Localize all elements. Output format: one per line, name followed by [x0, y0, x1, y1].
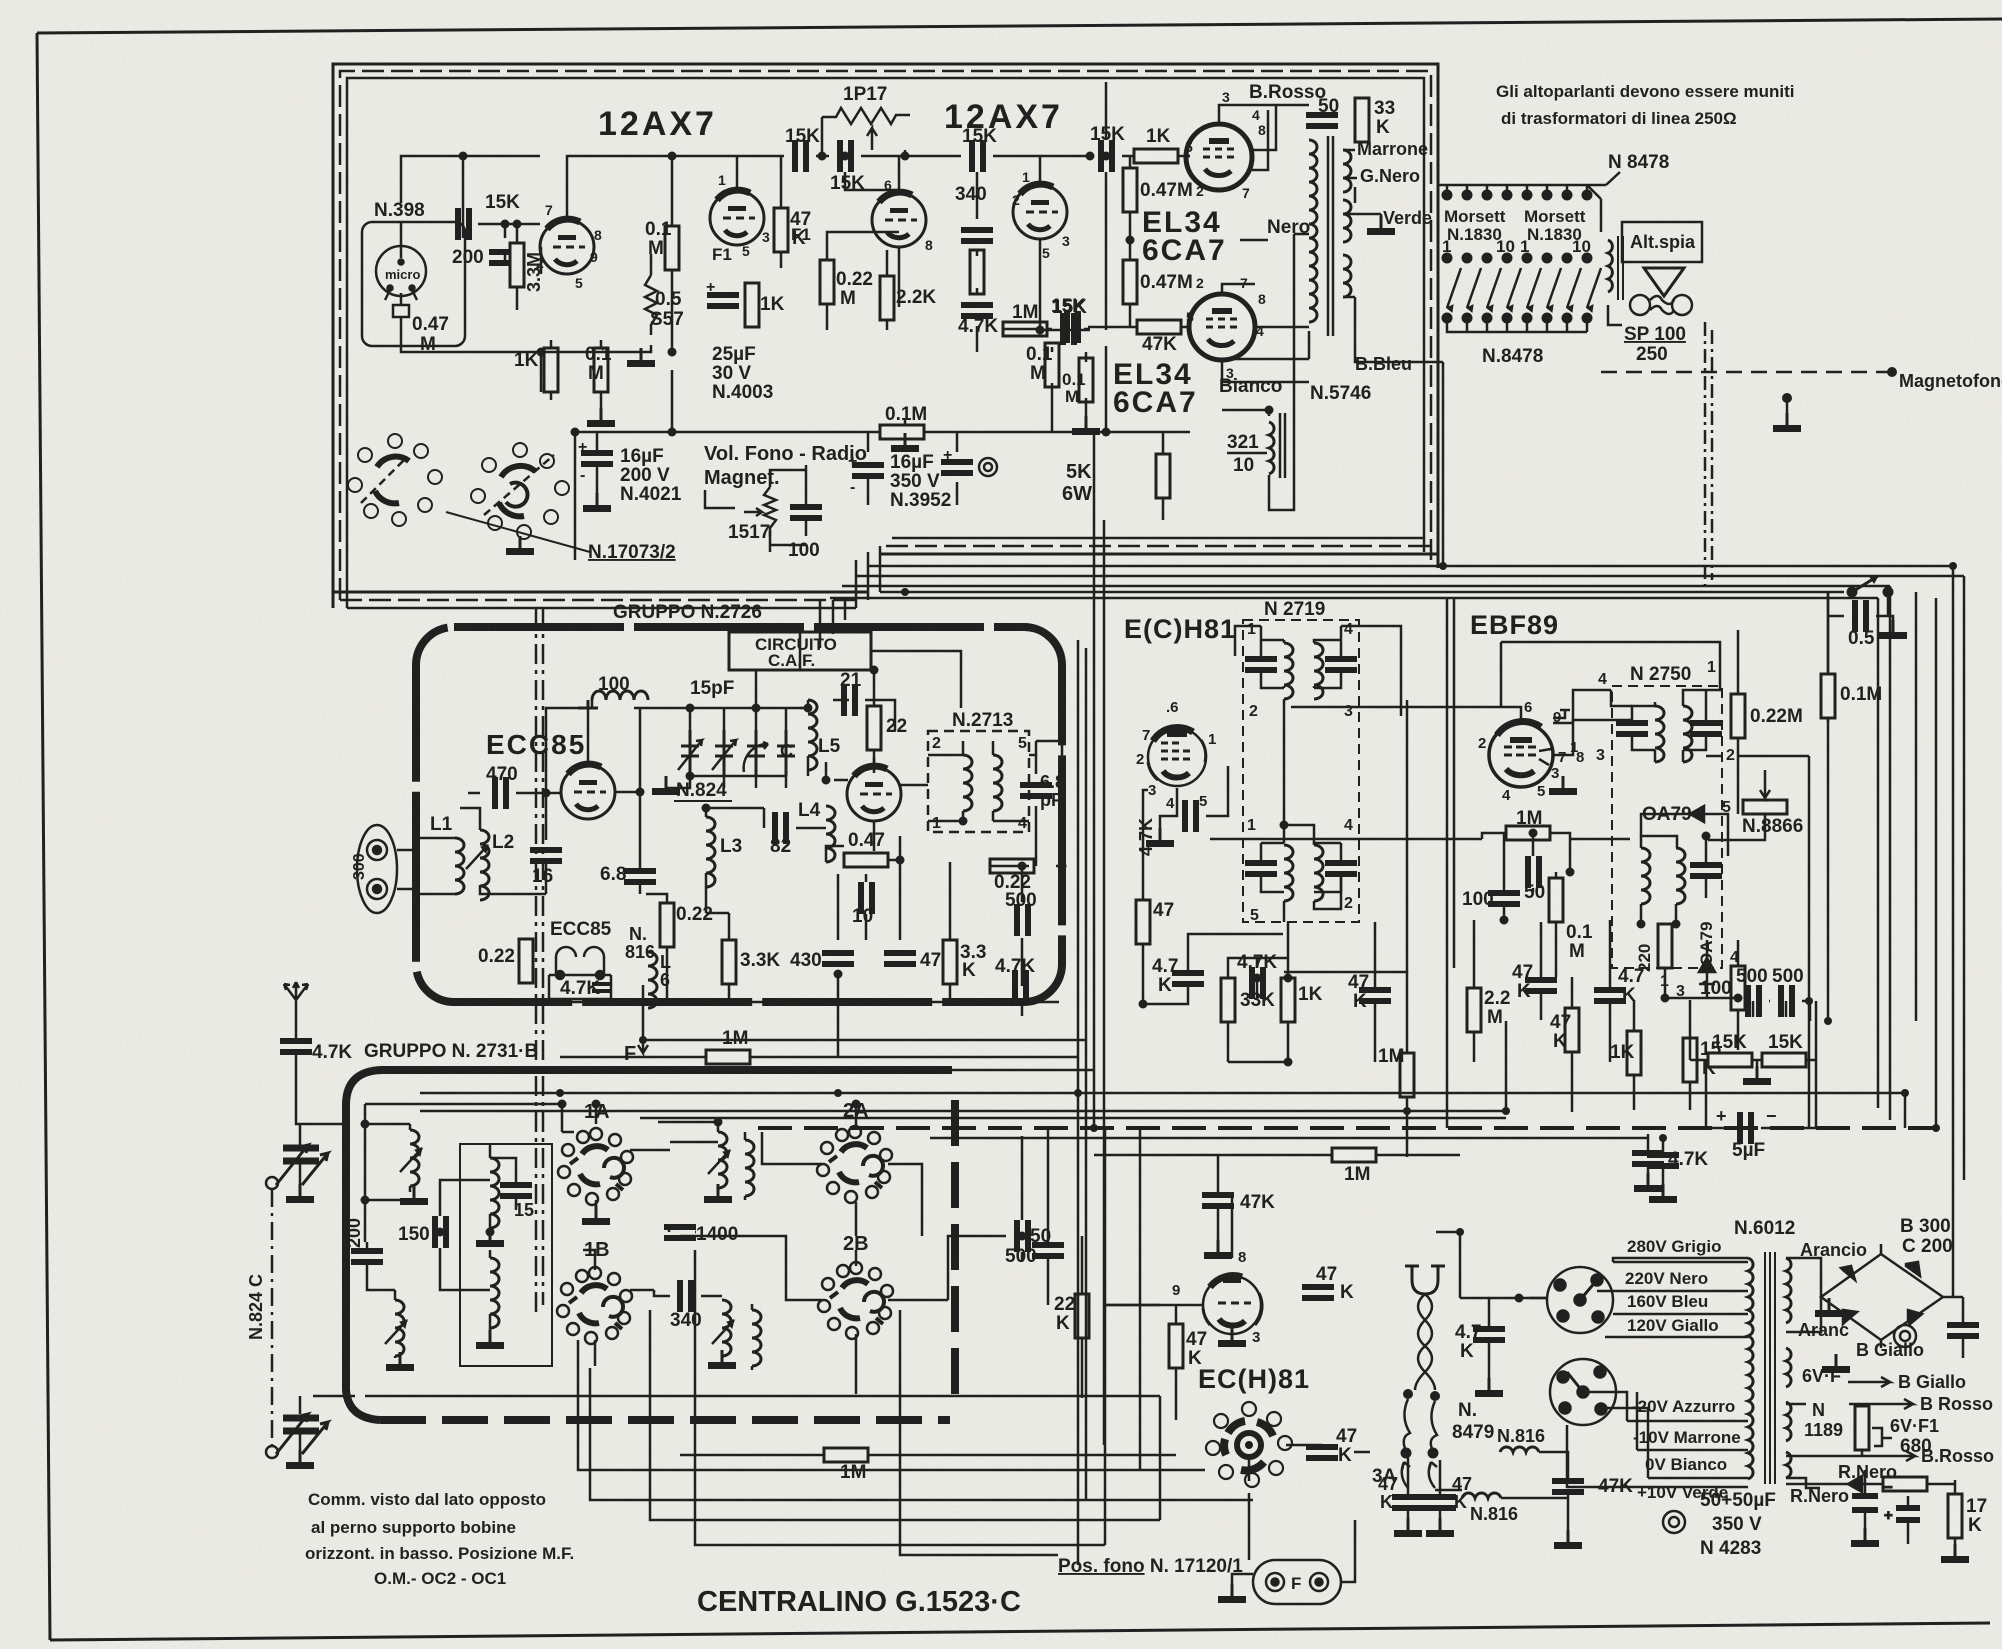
resistor 0.1M vertical: [1045, 343, 1059, 387]
pin digits EL34 upper: [1185, 89, 1266, 201]
ground gang 1: [286, 1184, 314, 1203]
bridge wires: [1786, 1244, 1963, 1348]
bottom rail: [1447, 318, 1587, 332]
tuning gang 1 wires: [300, 1124, 343, 1194]
triode V2b 12AX7: [1013, 184, 1067, 239]
resistor 47K horizontal: [1137, 320, 1181, 334]
CAF box: [729, 632, 871, 670]
cap 10: [858, 882, 875, 914]
junction dots on buses: [556, 562, 1957, 1236]
cap 4.7K mid: [1249, 967, 1266, 999]
vertical riser 1M: [1406, 700, 1409, 972]
ground gang 2: [286, 1450, 314, 1469]
cap 6.8pF: [1020, 782, 1052, 799]
grid coupling cap 15K #2: [837, 140, 854, 172]
resistor 0.47M vertical lower: [1123, 260, 1137, 304]
terminal circle: [979, 458, 997, 476]
coil mid 1 with arrow: [708, 1132, 730, 1188]
switch rosette 1B: [557, 1267, 632, 1344]
switch rosette 2A: [817, 1126, 892, 1203]
resistor 0.22 vertical mid: [660, 903, 674, 947]
plate resistor 47K vertical: [774, 208, 788, 252]
fuse holder oval: [1253, 1560, 1341, 1604]
cap 500: [1014, 904, 1031, 936]
cap 47K near chokes: [1552, 1478, 1584, 1495]
wire screen tap: [1252, 110, 1268, 170]
cap 470: [492, 777, 509, 809]
cap 100 at pot: [790, 504, 822, 521]
magnetofono terminal: [1773, 367, 1897, 432]
resistor 5K 6W vertical: [1156, 454, 1170, 498]
switch top right: [1847, 576, 1893, 597]
coil L6: [648, 952, 657, 1008]
wire antenna down: [296, 1022, 313, 1124]
arrowheads: [1447, 305, 1593, 312]
ground 17K: [1941, 1544, 1969, 1563]
triode V1b 12AX7: [710, 190, 764, 245]
pin digits EL34 lower: [1186, 275, 1266, 381]
wire plate V1 to cap: [541, 156, 784, 352]
wires pot: [770, 465, 806, 552]
wire 100 coil: [546, 700, 690, 793]
tuning gang 1 cap: [276, 1145, 328, 1185]
bottom long wire 6: [900, 1310, 1058, 1555]
ground coil mid2: [708, 1350, 736, 1369]
cap 47K mid left: [1202, 1192, 1234, 1209]
dash-dot pair right of matrix: [1705, 322, 1712, 588]
resistor 47K below 340: [970, 250, 984, 294]
lamp holder circles: [1630, 295, 1692, 315]
ground coil osc1: [476, 1228, 504, 1247]
bottom long wire 1: [365, 1396, 1160, 1520]
wire to mains 4.7K: [1436, 1232, 1489, 1298]
ground second: [1426, 1518, 1454, 1537]
bridge rectifier diamond: [1821, 1254, 1943, 1340]
wire 4.7K bus: [1662, 1138, 1665, 1196]
ECH81 tube: [1148, 728, 1206, 786]
resistor 3.3M vertical: [510, 243, 524, 287]
phono switch wafer A: [348, 434, 442, 526]
ground coil 2: [386, 1352, 414, 1371]
heater symbol 6VF1: [1872, 1428, 1892, 1446]
pins EC(H)81: [1172, 1249, 1260, 1346]
coil L2: [480, 830, 489, 900]
resistor 1M horizontal bottom: [680, 1454, 1176, 1457]
pin digits 12AX7 V2: [718, 172, 770, 259]
ground coil osc2: [476, 1330, 504, 1349]
phono switch wafer B: [471, 443, 569, 539]
underline N.824: [674, 800, 732, 802]
resistor 2.2M vertical: [1467, 988, 1481, 1032]
bottom long wire 4: [650, 1310, 1160, 1520]
wire cathode: [1160, 766, 1228, 828]
EBF89 tube: [1489, 722, 1553, 787]
cap 50: [1032, 1242, 1064, 1259]
terminal matrix: [1442, 185, 1601, 332]
ground verde: [1367, 216, 1395, 235]
tuning gang 1 circle: [266, 1177, 278, 1189]
wire fuse: [1232, 1493, 1355, 1584]
cap 150: [432, 1216, 449, 1248]
resistor 1M below box: [706, 1050, 750, 1064]
dashed box N.2750: [1612, 686, 1722, 968]
bus below amp block 4: [868, 566, 1953, 1296]
ratio detector coil b: [1676, 848, 1685, 904]
dashed box N.2719: [1243, 620, 1359, 922]
ground 47K mid: [1204, 1240, 1232, 1259]
IF2 coil secondary: [1314, 845, 1323, 901]
junction dots N2750: [1637, 832, 1743, 1003]
bottom long wire 3: [590, 1368, 1253, 1500]
pilot lamp triangle: [1644, 268, 1684, 296]
junction dots EBF: [1500, 829, 1575, 925]
resistors 15K 15K horizontal: [1708, 1053, 1752, 1067]
ground coil mid1: [704, 1184, 732, 1203]
diode OA79: [1690, 806, 1714, 822]
resistor 47 K vertical: [1169, 1324, 1183, 1368]
resistor 0.47 horizontal: [844, 853, 888, 867]
bus mid 4: [930, 1137, 1648, 1140]
page frame bottom border: [50, 1623, 1990, 1640]
amplifier shield enclosure middle border: [340, 71, 1431, 600]
resistor 22 boxed: [867, 706, 881, 750]
tuning gang 2 wires: [300, 1396, 355, 1462]
junction dots top block: [459, 152, 1111, 437]
wire plate lower: [1222, 284, 1309, 382]
resistor 47 K vertical: [1565, 1008, 1579, 1052]
coil L3: [706, 817, 715, 887]
wire EBF89 top: [1291, 642, 1633, 788]
wire matrix to pilot: [1587, 185, 1622, 325]
secondary 6V winding: [1786, 1348, 1791, 1387]
wire 1M to EC(H)81: [1104, 1304, 1160, 1307]
ground triode a top: [578, 700, 598, 708]
secondary rect winding: [1786, 1452, 1791, 1478]
resistor 15 K vertical: [1683, 1038, 1697, 1082]
resistor 0.1M vertical second: [1079, 358, 1093, 402]
bottom long wire 5: [695, 1250, 1105, 1545]
pin digits 12AX7 V1: [536, 202, 602, 291]
ground fuse: [1218, 1584, 1246, 1603]
arrow L2: [466, 845, 488, 869]
arrow into pot: [1760, 770, 1770, 798]
wire 5K: [868, 432, 1163, 520]
fraction bar: [1227, 452, 1267, 455]
cap 47K right: [1424, 1494, 1456, 1511]
cap 100: [1488, 890, 1520, 907]
input cap 15K near micro: [455, 208, 472, 240]
antenna terminal 300: [357, 825, 397, 913]
N2750 cap left: [1616, 720, 1648, 737]
stub wires top: [1447, 185, 1587, 195]
wire plate upper to transformer: [1219, 105, 1309, 150]
switch arms mains: [1401, 1399, 1438, 1488]
riser pos fono: [1105, 1130, 1140, 1545]
AVC dashed bus: [758, 1126, 1936, 1130]
ECC85 triode b: [847, 766, 901, 821]
resistor 33K vertical: [1355, 98, 1369, 142]
dot selector: [1515, 1294, 1524, 1303]
wire cathode join: [1240, 239, 1268, 242]
pentode EL34 lower: [1189, 294, 1255, 360]
trimmer bank: [678, 730, 795, 776]
cap 200: [489, 249, 521, 266]
resistor 0.22 horizontal right: [990, 859, 1034, 873]
pins 4 1 3 2: [1596, 659, 1735, 764]
resistor 1M on bus: [1332, 1148, 1376, 1162]
grid coupling cap 15K #4: [1098, 140, 1115, 172]
wire micro to grid: [401, 317, 541, 352]
IF strip wires lower: [1143, 790, 1474, 1157]
tube EBF89 envelope: [1489, 723, 1553, 787]
resistor 1M horizontal: [1506, 826, 1550, 840]
resistor 33K vertical: [1221, 978, 1235, 1022]
cord split dots: [1403, 1389, 1440, 1401]
bottom long wire 2: [578, 1340, 1205, 1470]
resistor 680 horizontal: [1883, 1477, 1927, 1491]
choke wires: [1222, 234, 1309, 510]
pins 1 4 5 2: [1247, 817, 1353, 924]
IF1 coil secondary: [1314, 643, 1323, 699]
arrow B Rosso: [1849, 1399, 1913, 1409]
cap 4.7K: [961, 302, 993, 319]
wire trimmers rail: [666, 708, 808, 788]
wire 0.22M: [1738, 630, 1809, 1127]
amplifier shield enclosure outer border: [333, 64, 1438, 608]
amplifier shield enclosure inner border: [347, 78, 1424, 608]
wire 22: [871, 670, 874, 773]
terminal double circle: [1663, 1511, 1685, 1533]
wire plate a: [615, 708, 667, 1002]
wire triode b: [826, 757, 928, 851]
resistor 0.47M vertical upper: [1123, 168, 1137, 212]
secondary taps wires: [1222, 150, 1443, 566]
wire pot 1P17: [822, 117, 905, 156]
cap 4.7 K: [1172, 970, 1204, 987]
ground trimmer bank: [652, 776, 680, 795]
cap 340: [961, 227, 993, 244]
choke 321/10: [1269, 422, 1274, 474]
cap 50 top: [1306, 112, 1338, 129]
resistor 220 vertical: [1658, 924, 1672, 968]
dashed leader to N.17073/2: [446, 512, 590, 552]
electrolytic 16uF 200V: [578, 439, 613, 484]
ground 47K choke: [1554, 1530, 1582, 1549]
resistor 2.2K vertical: [880, 276, 894, 320]
cap 50: [1525, 856, 1542, 888]
pins 1 4 2 3: [1247, 621, 1353, 720]
grid coupling cap 15K #1: [792, 140, 809, 172]
bus below amp block 3: [855, 576, 1964, 1180]
wire 0.5: [1828, 592, 1893, 722]
cap 47 K: [1359, 987, 1391, 1004]
wire bus 0.1M row: [575, 346, 1190, 560]
ground EC(H)81 plate: [1218, 1328, 1246, 1347]
B+ bus mid 3: [640, 1117, 1506, 1120]
resistor 1K vertical: [1627, 1031, 1641, 1075]
Alt.spia box: [1622, 222, 1702, 262]
IF transformer wires: [1235, 626, 1401, 922]
electrolytic 25uF: [706, 279, 739, 309]
pin digits 12AX7 V4: [1012, 169, 1070, 261]
cap 4.7K at selector: [1473, 1326, 1505, 1343]
triode V2a 12AX7: [872, 192, 926, 247]
power transformer primary winding: [1748, 1258, 1753, 1479]
electrolytic 50uF #1 smudged: [1852, 1470, 1893, 1540]
vertical risers center: [1078, 432, 1104, 1565]
wire V1 cathode chain: [540, 248, 601, 412]
wire grid rail V1: [463, 156, 540, 310]
cap 15K lower drive: [1064, 311, 1081, 343]
resistor 0.1 vertical second stage: [665, 226, 679, 270]
choke core: [1280, 413, 1285, 478]
ground 4.7K: [1634, 1173, 1662, 1192]
cap 1400: [664, 1224, 696, 1241]
pilot core: [1618, 236, 1623, 300]
series cap 4.7K antenna: [280, 1038, 312, 1055]
bus below amp block 1: [830, 598, 1878, 1108]
secondary 6V F1 winding: [1786, 1402, 1791, 1441]
resistor 3.3K vertical right: [943, 940, 957, 984]
cathode resistor 1K vertical: [745, 283, 759, 327]
wire mains caps: [1408, 1458, 1440, 1530]
label F with arrow: [638, 985, 648, 1053]
resistor 1M horizontal: [1003, 322, 1047, 336]
wire 16uF: [596, 432, 599, 505]
bus switch right: [880, 591, 1844, 594]
switch rosette 1A: [558, 1128, 633, 1205]
electrolytic 5uF: [1737, 1112, 1754, 1144]
coil mid small: [745, 1140, 754, 1196]
cap 47: [884, 950, 916, 967]
resistor N1189 vertical: [1855, 1406, 1869, 1450]
wire micro top: [401, 156, 463, 246]
IF1 cap left: [1245, 656, 1277, 673]
IF2 coil primary: [1284, 845, 1293, 901]
wire bottom bus in box: [457, 1001, 1059, 1004]
wire grid ECC85a: [540, 708, 592, 894]
dashed line Magnetofono: [1601, 371, 1892, 374]
diode at 680: [1848, 1476, 1876, 1492]
caps 47K pair at mains: [1392, 1494, 1424, 1511]
ground coil 1: [400, 1186, 428, 1205]
cap 21: [841, 684, 858, 716]
cap 500 second: [1778, 985, 1795, 1017]
cap 16: [530, 847, 562, 864]
electrolytic 50uF #2: [1896, 1496, 1920, 1544]
cap at bridge output: [1947, 1322, 1979, 1339]
arrow B.Rosso 2: [1849, 1451, 1915, 1461]
ground 50uF1: [1851, 1528, 1879, 1547]
wire V2a plate: [781, 156, 899, 330]
ratio detector coil a: [1641, 848, 1650, 904]
IF1 cap right: [1325, 656, 1357, 673]
cap 6.8: [624, 868, 656, 885]
resistor 100 vertical: [1731, 966, 1745, 1010]
dashed box N.2713: [928, 731, 1029, 832]
page frame top border: [37, 19, 2002, 33]
voltage selector socket upper: [1547, 1267, 1613, 1333]
resistor 0.22 vertical left: [519, 939, 533, 983]
coil set shield rect: [460, 1144, 552, 1366]
ground 1A: [582, 1206, 610, 1225]
wire ECH81 to 1M grid line: [1210, 838, 1482, 841]
coil N.2713 primary: [963, 755, 972, 811]
wire grid upper: [1088, 156, 1190, 327]
resistor 0.22M vertical: [1731, 694, 1745, 738]
ground 0.5: [1879, 620, 1907, 639]
wire coupling row right: [816, 155, 1190, 158]
cap 500 right: [1014, 1220, 1031, 1252]
ground ECH81 cathode: [1146, 828, 1174, 847]
output transformer secondary winding: [1343, 150, 1351, 297]
coil L1: [455, 838, 464, 894]
vertical pair left of EBF89: [1447, 598, 1454, 1128]
wire L3/82: [706, 808, 900, 1002]
ratio cap: [1690, 862, 1722, 879]
top dots row: [1442, 190, 1592, 200]
ECC85 triode a: [561, 764, 615, 819]
micro input unit box N.398: [362, 222, 465, 346]
choke N.816 second: [1462, 1493, 1501, 1498]
EBF89 pin labels: [1478, 699, 1584, 804]
resistor 1M horizontal lower: [824, 1448, 868, 1462]
ground V2b cathode: [1072, 416, 1100, 435]
cap 47K right of rosette: [1302, 1284, 1334, 1301]
coil N.2713 secondary: [993, 755, 1002, 811]
B+ bus mid 2: [420, 1021, 1506, 1111]
cap 15: [500, 1182, 532, 1199]
tuner shield box thick: [416, 627, 1062, 1002]
coil mid 2 with arrow: [712, 1300, 734, 1356]
coil 100 horizontal: [592, 691, 648, 700]
tube ECH81 envelope: [1148, 728, 1206, 786]
ground wafer B: [506, 536, 534, 555]
page frame left border: [37, 33, 50, 1640]
pins 1 3 4: [1660, 949, 1739, 1000]
EBF89 lower wires: [1482, 833, 1630, 1112]
cap 4.7K at cathode: [1182, 800, 1199, 832]
coil osc 1: [490, 1158, 499, 1228]
ground V1 cathode: [587, 408, 615, 427]
top block internal wires: [401, 82, 1190, 648]
microphone symbol: [376, 246, 426, 317]
twisted cord: [1415, 1294, 1435, 1390]
N2750 coil secondary: [1683, 706, 1692, 762]
wire L2 top: [460, 793, 546, 894]
wire 17K: [1954, 1484, 1957, 1556]
voltage selector socket lower: [1550, 1359, 1616, 1425]
gang link dash-dot: [271, 1189, 274, 1446]
pilot lamp transformer coil: [1608, 240, 1612, 292]
wire antenna to L1: [397, 838, 455, 894]
switch rosette 2B: [818, 1262, 893, 1339]
cap 500: [1745, 985, 1762, 1017]
grounds mains caps: [1394, 1518, 1422, 1537]
wire selector: [1489, 1298, 1547, 1390]
ground V2: [891, 433, 919, 452]
mains plug prongs: [1405, 1266, 1445, 1294]
wire 1M bus: [420, 1002, 1094, 1070]
wire 47K mid: [1217, 1155, 1220, 1252]
power transformer secondary HT: [1786, 1258, 1791, 1323]
cap 4.7K right: [1012, 970, 1029, 1002]
cap 4.7 K right: [1594, 987, 1626, 1004]
wire 0.1M down: [1827, 592, 1830, 1021]
pentode EL34 upper: [1186, 124, 1252, 190]
B+ bus mid 1: [420, 1093, 1905, 1128]
wire L5: [800, 700, 895, 776]
